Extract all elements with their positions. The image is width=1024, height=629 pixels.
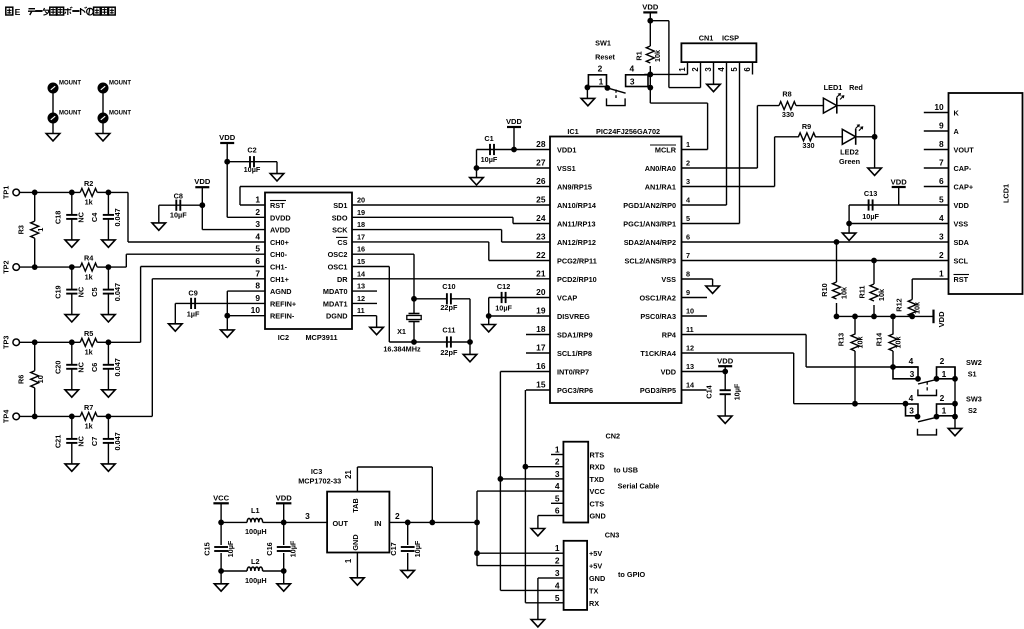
svg-text:R13: R13 bbox=[837, 333, 846, 346]
svg-text:NC: NC bbox=[76, 286, 85, 297]
svg-text:C16: C16 bbox=[265, 542, 274, 555]
svg-text:10µF: 10µF bbox=[170, 211, 187, 220]
svg-text:Green: Green bbox=[839, 157, 860, 166]
svg-text:MOUNT: MOUNT bbox=[59, 80, 81, 86]
svg-text:C4: C4 bbox=[90, 212, 99, 222]
svg-text:13: 13 bbox=[357, 282, 365, 291]
svg-text:MOUNT: MOUNT bbox=[109, 80, 131, 86]
svg-text:to GPIO: to GPIO bbox=[618, 570, 645, 579]
svg-text:LED2: LED2 bbox=[840, 148, 859, 157]
svg-text:R2: R2 bbox=[84, 179, 93, 188]
svg-text:10k: 10k bbox=[913, 301, 922, 314]
svg-text:PGD3/RP5: PGD3/RP5 bbox=[640, 386, 676, 395]
svg-text:3: 3 bbox=[704, 67, 713, 72]
svg-text:3: 3 bbox=[555, 568, 560, 578]
svg-text:RST: RST bbox=[954, 275, 969, 284]
svg-text:VDD: VDD bbox=[954, 201, 969, 210]
svg-text:Reset: Reset bbox=[595, 53, 615, 62]
svg-text:OUT: OUT bbox=[333, 519, 349, 528]
svg-text:14: 14 bbox=[686, 381, 695, 390]
svg-text:330: 330 bbox=[802, 141, 814, 150]
svg-text:22pF: 22pF bbox=[440, 348, 458, 357]
svg-text:1: 1 bbox=[344, 558, 353, 563]
svg-text:VDD1: VDD1 bbox=[557, 146, 576, 155]
svg-text:R7: R7 bbox=[84, 403, 93, 412]
svg-text:27: 27 bbox=[536, 158, 546, 168]
svg-text:21: 21 bbox=[344, 470, 353, 479]
svg-text:VSS: VSS bbox=[661, 275, 676, 284]
svg-text:1: 1 bbox=[599, 77, 604, 87]
svg-text:C5: C5 bbox=[90, 287, 99, 296]
svg-text:R14: R14 bbox=[875, 332, 884, 346]
svg-text:MCP1702-33: MCP1702-33 bbox=[298, 476, 341, 485]
svg-text:26: 26 bbox=[536, 176, 546, 186]
svg-text:NC: NC bbox=[76, 435, 85, 446]
svg-text:22pF: 22pF bbox=[440, 303, 458, 312]
svg-text:7: 7 bbox=[255, 268, 260, 278]
svg-text:VDD: VDD bbox=[194, 177, 211, 186]
svg-text:10k: 10k bbox=[877, 288, 886, 301]
svg-text:3: 3 bbox=[909, 405, 914, 415]
svg-text:10µF: 10µF bbox=[733, 383, 742, 400]
svg-text:AVDD: AVDD bbox=[270, 226, 290, 235]
svg-text:5: 5 bbox=[686, 214, 690, 223]
svg-text:1k: 1k bbox=[85, 348, 94, 357]
svg-text:R12: R12 bbox=[895, 298, 904, 311]
svg-text:VCC: VCC bbox=[590, 487, 606, 496]
svg-text:R8: R8 bbox=[782, 89, 791, 98]
svg-text:22: 22 bbox=[536, 250, 546, 260]
svg-text:Red: Red bbox=[849, 83, 863, 92]
svg-text:2: 2 bbox=[555, 457, 560, 467]
svg-text:6: 6 bbox=[743, 67, 752, 72]
svg-text:CH0-: CH0- bbox=[270, 250, 288, 259]
svg-text:SDA1/RP9: SDA1/RP9 bbox=[557, 331, 593, 340]
svg-text:2: 2 bbox=[940, 393, 945, 403]
svg-text:to USB: to USB bbox=[614, 466, 638, 475]
svg-text:DISVREG: DISVREG bbox=[557, 312, 590, 321]
svg-text:VSS1: VSS1 bbox=[557, 164, 576, 173]
svg-text:17: 17 bbox=[357, 232, 365, 241]
svg-text:CAP-: CAP- bbox=[954, 164, 972, 173]
svg-text:C18: C18 bbox=[53, 211, 62, 224]
svg-text:PGC3/RP6: PGC3/RP6 bbox=[557, 386, 593, 395]
svg-text:11: 11 bbox=[686, 325, 694, 334]
svg-text:10µF: 10µF bbox=[862, 212, 879, 221]
svg-text:VCAP: VCAP bbox=[557, 294, 577, 303]
svg-text:8: 8 bbox=[686, 270, 690, 279]
svg-text:MOUNT: MOUNT bbox=[59, 110, 81, 116]
svg-text:CS: CS bbox=[337, 238, 347, 247]
svg-text:T1CK/RA4: T1CK/RA4 bbox=[640, 349, 677, 358]
svg-text:C15: C15 bbox=[203, 542, 212, 555]
svg-text:9: 9 bbox=[255, 293, 260, 303]
svg-text:GND: GND bbox=[589, 574, 605, 583]
svg-text:330: 330 bbox=[782, 110, 794, 119]
svg-text:K: K bbox=[954, 109, 960, 118]
svg-text:C10: C10 bbox=[442, 282, 455, 291]
svg-text:SW3: SW3 bbox=[966, 395, 982, 404]
svg-text:C7: C7 bbox=[90, 437, 99, 446]
svg-text:TAB: TAB bbox=[351, 498, 360, 512]
svg-text:GND: GND bbox=[590, 512, 606, 521]
svg-text:C20: C20 bbox=[53, 361, 62, 374]
svg-text:C9: C9 bbox=[188, 289, 197, 298]
svg-text:RX: RX bbox=[589, 599, 599, 608]
svg-text:10µF: 10µF bbox=[481, 155, 498, 164]
svg-text:6: 6 bbox=[939, 176, 944, 186]
svg-text:C1: C1 bbox=[484, 134, 493, 143]
svg-text:IC2: IC2 bbox=[278, 333, 289, 342]
svg-text:R10: R10 bbox=[820, 283, 829, 296]
svg-text:4: 4 bbox=[939, 213, 944, 223]
svg-text:1: 1 bbox=[942, 405, 947, 415]
svg-text:SDO: SDO bbox=[332, 213, 348, 222]
svg-text:X1: X1 bbox=[397, 327, 406, 336]
svg-text:1: 1 bbox=[678, 67, 687, 72]
svg-text:VSS: VSS bbox=[954, 220, 969, 229]
svg-text:5: 5 bbox=[555, 493, 560, 503]
svg-text:CH1+: CH1+ bbox=[270, 275, 289, 284]
svg-text:1k: 1k bbox=[85, 198, 94, 207]
svg-text:0.047: 0.047 bbox=[113, 283, 122, 301]
svg-text:17: 17 bbox=[536, 343, 546, 353]
svg-text:9: 9 bbox=[686, 288, 690, 297]
svg-text:4: 4 bbox=[255, 231, 260, 241]
svg-text:REFIN-: REFIN- bbox=[270, 312, 295, 321]
svg-text:5: 5 bbox=[555, 593, 560, 603]
svg-text:5: 5 bbox=[255, 244, 260, 254]
svg-text:15: 15 bbox=[536, 380, 546, 390]
svg-text:18: 18 bbox=[536, 324, 546, 334]
svg-text:S1: S1 bbox=[968, 370, 977, 379]
svg-text:LCD1: LCD1 bbox=[1001, 184, 1010, 203]
svg-text:R6: R6 bbox=[17, 375, 26, 384]
svg-text:TX: TX bbox=[589, 586, 598, 595]
svg-text:SW2: SW2 bbox=[966, 358, 982, 367]
svg-text:INT0/RP7: INT0/RP7 bbox=[557, 368, 589, 377]
svg-text:15: 15 bbox=[357, 257, 365, 266]
svg-text:2: 2 bbox=[686, 159, 690, 168]
svg-text:6: 6 bbox=[686, 233, 690, 242]
svg-text:10: 10 bbox=[251, 305, 261, 315]
svg-text:VDD: VDD bbox=[642, 3, 659, 12]
svg-text:C17: C17 bbox=[389, 542, 398, 555]
svg-text:6: 6 bbox=[555, 506, 560, 516]
svg-text:R1: R1 bbox=[635, 51, 644, 60]
svg-text:1: 1 bbox=[686, 140, 690, 149]
svg-text:DVDD: DVDD bbox=[270, 213, 291, 222]
svg-text:2: 2 bbox=[598, 64, 603, 74]
svg-text:16: 16 bbox=[536, 361, 546, 371]
svg-text:24: 24 bbox=[536, 213, 546, 223]
svg-text:E: E bbox=[15, 7, 21, 17]
svg-text:10µF: 10µF bbox=[413, 540, 422, 557]
svg-text:5: 5 bbox=[730, 67, 739, 72]
svg-text:25: 25 bbox=[536, 195, 546, 205]
svg-text:IC3: IC3 bbox=[311, 467, 322, 476]
svg-text:13: 13 bbox=[686, 362, 694, 371]
svg-text:NC: NC bbox=[76, 211, 85, 222]
svg-text:TP2: TP2 bbox=[2, 260, 11, 273]
svg-text:1: 1 bbox=[555, 445, 560, 455]
svg-text:RST: RST bbox=[270, 201, 285, 210]
svg-text:4: 4 bbox=[629, 64, 634, 74]
svg-text:4: 4 bbox=[717, 67, 726, 72]
svg-text:CN3: CN3 bbox=[605, 531, 620, 540]
svg-text:SD1: SD1 bbox=[333, 201, 347, 210]
svg-text:0.047: 0.047 bbox=[113, 208, 122, 226]
svg-text:10: 10 bbox=[36, 375, 45, 383]
svg-text:PCG2/RP11: PCG2/RP11 bbox=[557, 257, 597, 266]
svg-text:AN1/RA1: AN1/RA1 bbox=[645, 183, 676, 192]
svg-text:0.047: 0.047 bbox=[113, 358, 122, 376]
svg-text:PIC24FJ256GA702: PIC24FJ256GA702 bbox=[596, 127, 660, 136]
svg-text:10µF: 10µF bbox=[289, 540, 298, 557]
svg-text:OSC1/RA2: OSC1/RA2 bbox=[640, 294, 677, 303]
svg-text:C6: C6 bbox=[90, 363, 99, 372]
svg-text:VDD: VDD bbox=[276, 493, 293, 502]
svg-text:C21: C21 bbox=[53, 435, 62, 448]
svg-text:6: 6 bbox=[255, 256, 260, 266]
svg-text:C8: C8 bbox=[174, 192, 183, 201]
svg-text:R3: R3 bbox=[17, 225, 26, 234]
svg-text:1k: 1k bbox=[85, 272, 94, 281]
svg-text:C2: C2 bbox=[247, 146, 256, 155]
svg-text:+5V: +5V bbox=[589, 549, 602, 558]
svg-text:11: 11 bbox=[357, 306, 365, 315]
svg-text:10k: 10k bbox=[653, 49, 662, 62]
svg-text:AN11/RP13: AN11/RP13 bbox=[557, 220, 596, 229]
svg-text:R9: R9 bbox=[802, 122, 811, 131]
svg-text:3: 3 bbox=[910, 369, 915, 379]
svg-text:CTS: CTS bbox=[590, 499, 605, 508]
svg-text:VDD: VDD bbox=[717, 356, 734, 365]
svg-text:14: 14 bbox=[357, 269, 366, 278]
svg-text:1: 1 bbox=[255, 195, 260, 205]
svg-text:2: 2 bbox=[555, 556, 560, 566]
svg-text:100µH: 100µH bbox=[245, 576, 267, 585]
svg-text:AN9/RP15: AN9/RP15 bbox=[557, 183, 592, 192]
svg-text:R4: R4 bbox=[84, 254, 94, 263]
svg-text:3: 3 bbox=[939, 232, 944, 242]
svg-text:TP1: TP1 bbox=[2, 186, 11, 199]
svg-text:2: 2 bbox=[691, 67, 700, 72]
svg-text:28: 28 bbox=[536, 139, 546, 149]
svg-text:AGND: AGND bbox=[270, 287, 292, 296]
svg-text:SCL1/RP8: SCL1/RP8 bbox=[557, 349, 592, 358]
svg-text:AN12/RP12: AN12/RP12 bbox=[557, 238, 596, 247]
svg-text:C12: C12 bbox=[497, 282, 510, 291]
svg-text:2: 2 bbox=[255, 207, 260, 217]
svg-text:2: 2 bbox=[395, 511, 400, 521]
svg-text:LED1: LED1 bbox=[824, 83, 843, 92]
svg-text:20: 20 bbox=[357, 196, 365, 205]
svg-text:IN: IN bbox=[374, 519, 381, 528]
svg-text:SDA2/AN4/RP2: SDA2/AN4/RP2 bbox=[624, 238, 676, 247]
svg-text:PSC0/RA3: PSC0/RA3 bbox=[640, 312, 676, 321]
svg-text:IC1: IC1 bbox=[567, 127, 578, 136]
svg-text:19: 19 bbox=[357, 208, 365, 217]
svg-text:R5: R5 bbox=[84, 329, 93, 338]
svg-text:1µF: 1µF bbox=[187, 309, 200, 318]
svg-text:CN2: CN2 bbox=[605, 432, 620, 441]
svg-text:12: 12 bbox=[686, 344, 694, 353]
svg-text:PGC1/AN3/RP1: PGC1/AN3/RP1 bbox=[623, 220, 676, 229]
svg-text:MOUNT: MOUNT bbox=[109, 110, 131, 116]
svg-text:TP3: TP3 bbox=[2, 336, 11, 349]
svg-text:MCP3911: MCP3911 bbox=[305, 333, 337, 342]
svg-text:CN1: CN1 bbox=[699, 34, 714, 43]
svg-text:1: 1 bbox=[942, 369, 947, 379]
svg-text:PCD2/RP10: PCD2/RP10 bbox=[557, 275, 597, 284]
svg-text:8: 8 bbox=[255, 281, 260, 291]
svg-text:10k: 10k bbox=[840, 286, 849, 299]
svg-text:4: 4 bbox=[555, 481, 560, 491]
svg-text:OSC2: OSC2 bbox=[328, 250, 348, 259]
svg-text:AN10/RP14: AN10/RP14 bbox=[557, 201, 597, 210]
svg-text:VDD: VDD bbox=[661, 368, 676, 377]
svg-text:+5V: +5V bbox=[589, 562, 602, 571]
svg-text:DR: DR bbox=[337, 275, 348, 284]
svg-text:1: 1 bbox=[36, 228, 45, 232]
svg-text:ICSP: ICSP bbox=[722, 34, 739, 43]
svg-text:1: 1 bbox=[939, 269, 944, 279]
svg-text:100µH: 100µH bbox=[245, 527, 267, 536]
svg-text:RP4: RP4 bbox=[662, 331, 677, 340]
svg-text:1: 1 bbox=[555, 543, 560, 553]
svg-text:16.384MHz: 16.384MHz bbox=[383, 345, 421, 354]
svg-text:PGD1/AN2/RP0: PGD1/AN2/RP0 bbox=[623, 201, 676, 210]
svg-text:L2: L2 bbox=[251, 557, 260, 566]
svg-text:MDAT0: MDAT0 bbox=[323, 287, 348, 296]
svg-text:8: 8 bbox=[939, 139, 944, 149]
svg-text:REFIN+: REFIN+ bbox=[270, 299, 296, 308]
svg-text:10µF: 10µF bbox=[495, 304, 512, 313]
svg-text:CH0+: CH0+ bbox=[270, 238, 289, 247]
svg-text:C19: C19 bbox=[53, 285, 62, 298]
svg-text:3: 3 bbox=[255, 219, 260, 229]
svg-text:A: A bbox=[954, 127, 960, 136]
svg-text:RXD: RXD bbox=[590, 463, 605, 472]
svg-text:Serial Cable: Serial Cable bbox=[618, 481, 660, 490]
svg-text:NC: NC bbox=[76, 361, 85, 372]
svg-text:10µF: 10µF bbox=[226, 540, 235, 557]
svg-text:SDA: SDA bbox=[954, 238, 970, 247]
svg-text:TP4: TP4 bbox=[2, 409, 11, 423]
svg-text:10: 10 bbox=[934, 102, 944, 112]
svg-text:2: 2 bbox=[939, 250, 944, 260]
svg-text:10k: 10k bbox=[856, 335, 865, 348]
svg-text:1k: 1k bbox=[85, 422, 94, 431]
svg-text:SCK: SCK bbox=[332, 226, 348, 235]
svg-text:5: 5 bbox=[939, 195, 944, 205]
svg-text:16: 16 bbox=[357, 245, 365, 254]
svg-text:0.047: 0.047 bbox=[113, 432, 122, 450]
svg-text:3: 3 bbox=[555, 469, 560, 479]
svg-text:10k: 10k bbox=[894, 335, 903, 348]
svg-text:12: 12 bbox=[357, 294, 365, 303]
svg-text:AN0/RA0: AN0/RA0 bbox=[645, 164, 676, 173]
svg-text:SCL2/AN5/RP3: SCL2/AN5/RP3 bbox=[625, 257, 677, 266]
svg-text:VCC: VCC bbox=[213, 493, 230, 502]
svg-text:4: 4 bbox=[909, 356, 914, 366]
svg-text:3: 3 bbox=[305, 511, 310, 521]
svg-text:S2: S2 bbox=[968, 406, 977, 415]
svg-text:9: 9 bbox=[939, 121, 944, 131]
svg-text:C14: C14 bbox=[705, 384, 714, 398]
svg-text:4: 4 bbox=[909, 393, 914, 403]
svg-text:CAP+: CAP+ bbox=[954, 183, 974, 192]
svg-text:20: 20 bbox=[536, 287, 546, 297]
svg-text:VDD: VDD bbox=[891, 177, 908, 186]
svg-text:10µF: 10µF bbox=[244, 165, 261, 174]
svg-text:VDD: VDD bbox=[937, 311, 946, 328]
svg-text:C11: C11 bbox=[442, 326, 455, 335]
svg-text:VDD: VDD bbox=[219, 133, 236, 142]
svg-text:DGND: DGND bbox=[326, 312, 348, 321]
svg-text:3: 3 bbox=[630, 77, 635, 87]
svg-text:23: 23 bbox=[536, 232, 546, 242]
svg-text:2: 2 bbox=[940, 356, 945, 366]
svg-text:MCLR: MCLR bbox=[655, 146, 677, 155]
svg-text:19: 19 bbox=[536, 306, 546, 316]
svg-text:MDAT1: MDAT1 bbox=[323, 299, 348, 308]
svg-text:SW1: SW1 bbox=[595, 39, 611, 48]
svg-text:7: 7 bbox=[686, 251, 690, 260]
svg-text:TXD: TXD bbox=[590, 475, 605, 484]
svg-text:R11: R11 bbox=[858, 286, 867, 299]
svg-text:18: 18 bbox=[357, 220, 365, 229]
svg-text:4: 4 bbox=[555, 580, 560, 590]
svg-text:OSC1: OSC1 bbox=[328, 263, 348, 272]
svg-text:VOUT: VOUT bbox=[954, 146, 975, 155]
svg-text:RTS: RTS bbox=[590, 451, 605, 460]
svg-text:VDD: VDD bbox=[506, 117, 523, 126]
svg-text:7: 7 bbox=[939, 158, 944, 168]
svg-text:L1: L1 bbox=[251, 506, 260, 515]
svg-text:SCL: SCL bbox=[954, 257, 969, 266]
svg-text:10: 10 bbox=[686, 307, 694, 316]
svg-text:CH1-: CH1- bbox=[270, 263, 288, 272]
svg-text:GND: GND bbox=[351, 534, 360, 550]
svg-text:C13: C13 bbox=[864, 189, 877, 198]
svg-text:21: 21 bbox=[536, 269, 546, 279]
svg-text:3: 3 bbox=[686, 177, 690, 186]
